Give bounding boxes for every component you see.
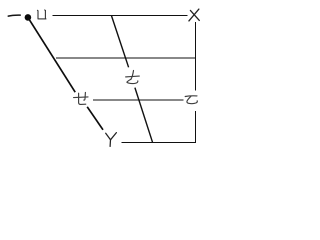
node label 凵	[37, 10, 46, 19]
wire L2 second horizontal	[56, 57, 196, 59]
node label て	[185, 96, 197, 104]
node label Y	[106, 133, 117, 147]
wire V right vertical upper segment	[194, 22, 196, 91]
node label: dash (ー)	[8, 15, 20, 16]
wire L3 third horizontal (せ to て)	[93, 99, 183, 101]
node dot (junction)	[25, 14, 32, 21]
wire D2 upper diagonal (L1 to さ)	[111, 16, 128, 68]
wire V right vertical lower segment	[194, 111, 196, 142]
node label さ	[126, 71, 140, 84]
wire D1 upper diagonal (dot to せ)	[29, 19, 75, 93]
wire L1 top horizontal	[52, 15, 187, 17]
node label メ (X)	[189, 9, 199, 21]
wire L4 bottom horizontal	[121, 141, 196, 143]
node label せ	[74, 92, 88, 104]
wire D2 lower diagonal (さ to L4)	[135, 88, 153, 143]
wire D1 lower diagonal (せ to Y)	[87, 107, 103, 130]
